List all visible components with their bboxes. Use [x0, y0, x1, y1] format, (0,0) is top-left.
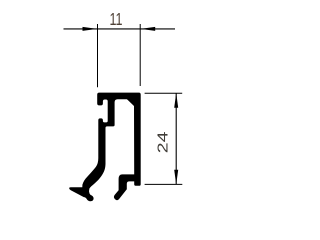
svg-text:24: 24: [154, 131, 171, 153]
extension line top of 24: [145, 92, 183, 94]
dimension line for 24 (vertical): [175, 93, 177, 184]
extension line right of 11: [139, 24, 141, 86]
arrowhead right (pointing left): [140, 27, 155, 31]
svg-text:11: 11: [109, 10, 122, 30]
arrowhead top (pointing up): [174, 93, 178, 108]
arrowhead bottom (pointing down): [174, 170, 178, 185]
profile cross-section (black extrusion outline): [69, 93, 141, 202]
arrowhead left (pointing right): [83, 27, 98, 31]
extension line bottom of 24: [145, 183, 183, 185]
dimension line for 11 (horizontal): [64, 28, 176, 30]
extension line left of 11: [97, 24, 99, 87]
